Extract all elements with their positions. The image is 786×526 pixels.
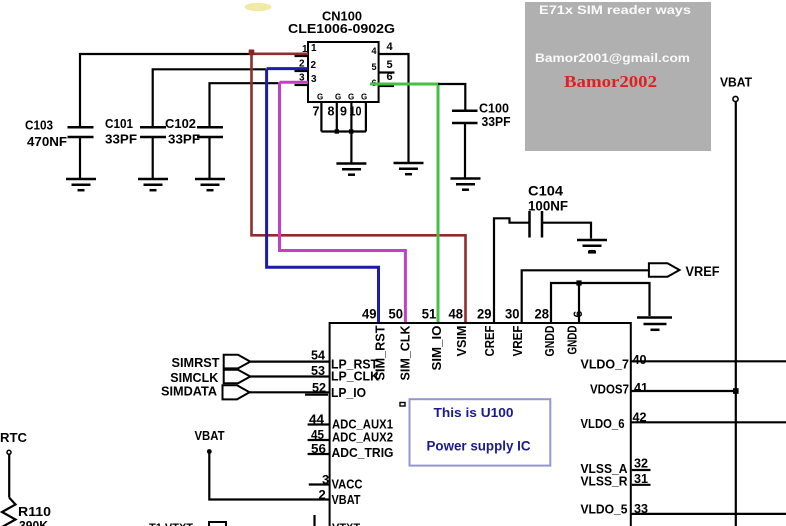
wire VREF from U100 pin30 xyxy=(522,270,649,323)
resistor R110 label xyxy=(18,504,51,519)
pin 6 stub xyxy=(379,85,394,87)
svg-text:VLSS_R: VLSS_R xyxy=(581,474,629,489)
svg-text:SIM_CLK: SIM_CLK xyxy=(398,325,413,381)
pin name SIM_RST rotated xyxy=(373,325,388,380)
info box This is U100 xyxy=(410,399,551,465)
pin 1 stub xyxy=(295,55,309,57)
wire SIMCLK to pin 53 xyxy=(250,375,329,377)
svg-text:This is U100: This is U100 xyxy=(434,405,514,420)
wire C104 right to ground xyxy=(542,223,591,239)
svg-text:LP_IO: LP_IO xyxy=(331,385,366,400)
svg-text:51: 51 xyxy=(422,307,437,322)
wire CN100 pin9 down xyxy=(350,102,352,132)
svg-text:G: G xyxy=(361,93,367,102)
pin 5 label outer xyxy=(387,59,393,71)
svg-text:C102: C102 xyxy=(165,116,196,131)
capacitor C102 xyxy=(197,127,223,137)
svg-text:VACC: VACC xyxy=(332,477,364,492)
pin 4 label outer xyxy=(387,41,394,53)
pin name VLDO_5 xyxy=(581,502,628,517)
capacitor C103 value 470NF xyxy=(27,134,67,149)
connector CN100 title xyxy=(322,9,362,24)
svg-text:SIMDATA: SIMDATA xyxy=(161,384,218,399)
pin 33 label xyxy=(634,501,648,516)
pin 52 underline xyxy=(305,394,328,396)
VBAT arrow dot xyxy=(207,449,212,454)
partial text bottom left xyxy=(149,522,193,526)
svg-text:C101: C101 xyxy=(105,116,133,131)
pin 1 label inner xyxy=(311,43,317,54)
wire C100 bottom xyxy=(464,123,466,179)
pin 3 label inner xyxy=(311,74,317,85)
svg-text:8: 8 xyxy=(328,105,335,119)
svg-text:LP_CLK: LP_CLK xyxy=(331,369,380,384)
wire VSIM red jumper: junction to CN100 pin1, down and across to U100 pin48 xyxy=(252,52,309,55)
pin 29 label xyxy=(477,307,492,322)
info text Power supply IC xyxy=(427,439,531,454)
svg-text:SIM_IO: SIM_IO xyxy=(429,326,444,371)
svg-text:ADC_AUX2: ADC_AUX2 xyxy=(332,430,393,445)
svg-text:VLDO_6: VLDO_6 xyxy=(581,416,625,431)
wire C102 bottom xyxy=(208,137,210,179)
pin 44 label xyxy=(309,412,325,427)
signal flag SIMCLK xyxy=(170,370,250,385)
pin 7 label xyxy=(313,105,320,119)
svg-text:32: 32 xyxy=(634,456,648,471)
svg-text:Bamor2002: Bamor2002 xyxy=(564,72,657,91)
pin name VLSS_A xyxy=(581,461,629,476)
svg-text:41: 41 xyxy=(634,380,648,395)
wire VBAT to U100 pin2 xyxy=(209,452,329,500)
wire C103 top xyxy=(80,54,251,127)
svg-text:6: 6 xyxy=(571,311,585,318)
wire blue vertical/horizontal to U100 pin49 xyxy=(267,69,379,323)
ground C103 xyxy=(66,179,96,190)
capacitor C102 value 33PF xyxy=(168,132,200,147)
pin 31 stub xyxy=(632,484,651,486)
junction pin41 VBAT xyxy=(733,388,739,394)
svg-text:G: G xyxy=(348,93,354,102)
svg-text:C103: C103 xyxy=(25,118,53,133)
node VBAT lower left label xyxy=(195,428,225,443)
svg-text:4: 4 xyxy=(372,46,377,56)
pin name VLDO_6 xyxy=(581,416,625,431)
svg-text:CLE1006-0902G: CLE1006-0902G xyxy=(288,22,395,36)
pin name VREF rotated xyxy=(510,325,525,356)
svg-text:40: 40 xyxy=(633,352,647,367)
svg-text:33PF: 33PF xyxy=(168,132,200,147)
wire GNDD net from U100 pin28 xyxy=(551,283,650,323)
svg-text:50: 50 xyxy=(389,307,404,322)
pin 5 label inner xyxy=(372,62,377,72)
wire CN100 pin4 to ground xyxy=(379,54,409,162)
signal flag SIMDATA xyxy=(161,384,250,400)
svg-text:VBAT: VBAT xyxy=(720,75,752,90)
ground CN100 pin4 xyxy=(394,163,424,174)
svg-text:49: 49 xyxy=(362,307,377,322)
wire C101 top xyxy=(153,69,266,127)
wire pin 41 to VBAT rail xyxy=(631,390,736,392)
pin name ADC_AUX2 xyxy=(332,430,393,445)
svg-text:Bamor2001@gmail.com: Bamor2001@gmail.com xyxy=(535,51,690,65)
node VBAT (top right) xyxy=(720,75,752,90)
pin 10 label xyxy=(350,105,362,119)
pin 31 label xyxy=(634,471,648,486)
wire CN100 pin8 down xyxy=(336,102,338,132)
pin 32 label xyxy=(634,456,648,471)
capacitor C100 value 33PF xyxy=(482,115,511,129)
pin name ADC_AUX1 xyxy=(332,417,393,432)
CN100 ground pin labels G G G G xyxy=(317,93,367,102)
pin name LP_CLK xyxy=(331,369,380,384)
pin 2 label xyxy=(319,487,326,502)
wire green CN100 pin6 to U100 pin51 xyxy=(370,84,438,323)
svg-text:9: 9 xyxy=(340,105,347,119)
pin 3 label xyxy=(322,472,329,487)
pin 1 label outer xyxy=(302,44,308,55)
pin 49 label xyxy=(362,307,377,322)
pin 2 label outer xyxy=(299,59,305,70)
port VREF flag xyxy=(649,263,680,277)
node VREF label xyxy=(686,264,720,279)
pin 44 stub xyxy=(308,423,330,425)
pin 56 label xyxy=(311,441,326,456)
pin 51 label xyxy=(422,307,437,322)
capacitor C100 label xyxy=(479,102,509,116)
wire RTC down xyxy=(8,455,10,498)
RTC arrow circle xyxy=(7,450,11,454)
gray title box xyxy=(525,2,711,151)
svg-text:VTXT: VTXT xyxy=(332,522,360,526)
wire CN100 pin10 down xyxy=(365,102,367,132)
pin name VSIM rotated xyxy=(454,326,469,357)
pin 56 stub xyxy=(308,453,330,455)
svg-text:C104: C104 xyxy=(528,184,564,199)
pin 1 wire bottom edge xyxy=(313,515,315,526)
svg-text:470NF: 470NF xyxy=(27,134,67,149)
pin 54 label xyxy=(311,348,326,363)
wire GNDD pin6 vertical xyxy=(578,283,580,323)
connector CN100 part number CLE1006-0902G xyxy=(288,22,395,36)
pin name SIM_CLK rotated xyxy=(398,325,413,381)
pin name VBAT xyxy=(332,492,361,507)
pin 8 label xyxy=(328,105,335,119)
ground C104 xyxy=(577,240,607,251)
svg-text:ADC_TRIG: ADC_TRIG xyxy=(332,445,394,460)
stray square mark xyxy=(400,403,405,407)
pin 53 label xyxy=(311,363,325,378)
pin 50 label xyxy=(389,307,404,322)
pin 3 label outer xyxy=(299,73,305,84)
pin 6 label rotated xyxy=(571,311,585,318)
svg-text:4: 4 xyxy=(387,41,394,53)
svg-text:G: G xyxy=(335,93,341,102)
ground CN100 pins xyxy=(336,164,366,175)
pin name CREF rotated xyxy=(482,325,497,356)
pin name GNDD2 rotated xyxy=(565,326,580,355)
wire magenta vertical/horizontal to U100 pin50 xyxy=(280,82,406,323)
pin 40 label xyxy=(633,352,647,367)
svg-text:SIMRST: SIMRST xyxy=(172,355,220,370)
ground C101 xyxy=(138,179,168,190)
pin 45 stub xyxy=(308,439,330,441)
wire pin 33 xyxy=(631,513,786,515)
connector CN100 body xyxy=(308,42,379,102)
pin name VLDO_7 xyxy=(581,357,630,372)
svg-text:GNDD: GNDD xyxy=(542,326,557,357)
wire VSIM red vertical/horizontal xyxy=(252,53,466,323)
capacitor C101 xyxy=(140,127,166,137)
resistor R110 xyxy=(2,498,16,526)
wire C101 bottom xyxy=(152,137,154,179)
pin 6 label inner xyxy=(372,78,377,88)
pin 4 label inner xyxy=(372,46,377,56)
svg-text:G: G xyxy=(317,93,323,102)
pin 32 stub xyxy=(632,469,651,471)
capacitor C103 label xyxy=(25,118,53,133)
svg-text:3: 3 xyxy=(311,74,317,85)
svg-text:VBAT: VBAT xyxy=(195,428,225,443)
svg-text:Power supply IC: Power supply IC xyxy=(427,439,531,454)
stray dash mark xyxy=(588,251,596,254)
capacitor C103 xyxy=(68,127,94,137)
pin name SIM_IO rotated xyxy=(429,326,444,371)
pin 2 label inner xyxy=(311,60,317,71)
capacitor C101 label xyxy=(105,116,133,131)
pin 6 label outer xyxy=(387,71,393,83)
info text This is U100 xyxy=(434,405,514,420)
svg-text:48: 48 xyxy=(449,307,464,322)
svg-text:T1 VTXT: T1 VTXT xyxy=(149,522,193,526)
svg-text:RTC: RTC xyxy=(0,430,28,445)
svg-text:390K: 390K xyxy=(19,518,49,526)
pin name LP_RST xyxy=(331,357,378,372)
wire VBAT vertical rail xyxy=(735,102,737,526)
pin name LP_IO xyxy=(331,385,366,400)
svg-text:VSIM: VSIM xyxy=(454,326,469,357)
wire SIM IO magenta jumper to CN100 pin3 xyxy=(280,81,309,84)
svg-text:2: 2 xyxy=(311,60,317,71)
pin 5 stub (NC) xyxy=(379,71,395,73)
svg-text:E71x SIM reader ways: E71x SIM reader ways xyxy=(539,3,691,17)
svg-text:VREF: VREF xyxy=(686,264,720,279)
resistor R110 value 390K xyxy=(19,518,49,526)
yellow highlighter smudge xyxy=(245,3,272,11)
svg-text:VLDO_5: VLDO_5 xyxy=(581,502,628,517)
svg-text:VBAT: VBAT xyxy=(332,492,361,507)
partial flag bottom left xyxy=(209,522,226,526)
svg-text:7: 7 xyxy=(313,105,320,119)
pin name VDOS7 xyxy=(590,382,629,397)
capacitor C100 xyxy=(452,111,478,123)
wire SIMDATA to pin 52 xyxy=(250,391,330,393)
pin 30 label xyxy=(505,307,520,322)
pin 3 stub xyxy=(295,84,309,86)
ground GNDD net xyxy=(637,318,672,330)
capacitor C104 label xyxy=(528,184,564,199)
junction pin8 xyxy=(335,129,339,133)
pin name GNDD rotated xyxy=(542,326,557,357)
wire C103 bottom xyxy=(79,137,81,179)
VBAT arrow circle xyxy=(733,96,738,101)
svg-text:CREF: CREF xyxy=(482,325,497,356)
svg-text:C100: C100 xyxy=(479,102,509,116)
svg-text:VREF: VREF xyxy=(510,325,525,356)
capacitor C104 value 100NF xyxy=(528,199,568,214)
svg-text:52: 52 xyxy=(312,380,326,395)
svg-text:R110: R110 xyxy=(18,504,51,519)
svg-text:29: 29 xyxy=(477,307,492,322)
pin 28 label xyxy=(535,307,550,322)
svg-text:53: 53 xyxy=(311,363,325,378)
title text E71x SIM reader ways xyxy=(539,3,691,17)
ground C102 xyxy=(195,179,225,190)
svg-text:VDOS7: VDOS7 xyxy=(590,382,629,397)
wire SIMRST to pin 54 xyxy=(250,361,329,363)
svg-text:33PF: 33PF xyxy=(105,132,137,147)
capacitor C101 value 33PF xyxy=(105,132,137,147)
IC U100 body outline xyxy=(330,323,631,526)
pin name VACC xyxy=(332,477,364,492)
title text Bamor2002 xyxy=(564,72,657,91)
wire to CN100 ground xyxy=(350,132,352,164)
svg-text:30: 30 xyxy=(505,307,520,322)
svg-text:33PF: 33PF xyxy=(482,115,511,129)
junction GNDD pin6 xyxy=(576,280,581,285)
pin 3 stub xyxy=(309,483,330,485)
svg-text:1: 1 xyxy=(311,43,317,54)
node RTC label xyxy=(0,430,28,445)
svg-text:5: 5 xyxy=(387,59,393,71)
pin 2 stub xyxy=(295,70,309,72)
wire SIM CLK blue jumper to CN100 pin2 xyxy=(267,67,308,70)
svg-text:VLDO_7: VLDO_7 xyxy=(581,357,630,372)
wire pin 42 xyxy=(631,421,786,423)
pin 45 label xyxy=(311,427,324,442)
pin 48 label xyxy=(449,307,464,322)
wire joining pins 7-10 xyxy=(321,130,366,132)
svg-text:GNDD: GNDD xyxy=(565,326,580,355)
wire CN100 pin6 to C100 xyxy=(438,84,465,111)
svg-text:54: 54 xyxy=(311,348,326,363)
svg-text:28: 28 xyxy=(535,307,550,322)
pin name VLSS_R xyxy=(581,474,629,489)
junction red at C103 wire xyxy=(249,50,255,56)
wire C102 top xyxy=(210,83,280,127)
capacitor C104 xyxy=(530,211,543,238)
wire CN100 pin7 down xyxy=(320,102,322,132)
capacitor C102 label xyxy=(165,116,196,131)
ground C100 xyxy=(451,179,481,190)
junction pin9 xyxy=(349,129,353,133)
pin 41 label xyxy=(634,380,648,395)
pin 52 label xyxy=(312,380,326,395)
wire C104 left to U100 pin29 xyxy=(494,218,530,323)
pin 42 label xyxy=(633,410,647,425)
pin 9 label xyxy=(340,105,347,119)
svg-text:100NF: 100NF xyxy=(528,199,568,214)
title text Bamor2001@gmail.com xyxy=(535,51,690,65)
wire pin 40 xyxy=(631,360,786,362)
svg-text:5: 5 xyxy=(372,62,377,72)
pin name ADC_TRIG xyxy=(332,445,394,460)
partial pin name VTXT bottom xyxy=(332,522,360,526)
signal flag SIMRST xyxy=(172,355,251,370)
